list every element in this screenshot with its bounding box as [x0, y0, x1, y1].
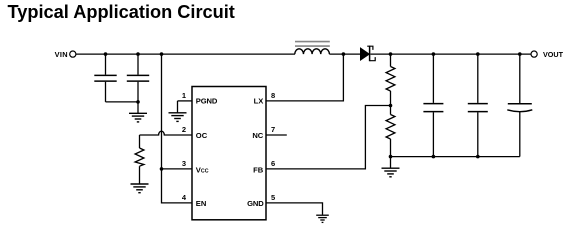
- ground (input caps): [129, 102, 147, 122]
- svg-text:OC: OC: [196, 131, 208, 140]
- pin 7 NC stub: [266, 134, 287, 136]
- pin 8 LX wire: [266, 54, 343, 101]
- node junction dot C4 bottom: [476, 155, 480, 159]
- svg-text:NC: NC: [252, 131, 263, 140]
- wire PGND down to ground: [177, 101, 179, 113]
- wire output bottom rail: [391, 156, 520, 158]
- node VOUT terminal: [531, 50, 564, 59]
- node junction dots output rail top: [432, 52, 436, 56]
- wire inductor to diode: [329, 53, 360, 55]
- svg-text:6: 6: [271, 159, 275, 168]
- capacitor C3 (output): [423, 54, 443, 157]
- wire VIN rail to inductor: [76, 53, 295, 55]
- node junction dot LX/inductor: [342, 52, 346, 56]
- svg-text:VOUT: VOUT: [543, 50, 564, 59]
- wire R2 to FB node: [390, 91, 392, 115]
- capacitor C2 (input): [127, 54, 149, 102]
- node junction dot diode cathode: [389, 52, 393, 56]
- resistor R2 (FB upper): [386, 67, 395, 92]
- IC U1 body: [192, 87, 266, 220]
- svg-text:LX: LX: [254, 97, 264, 106]
- wire diode to VOUT: [371, 53, 531, 55]
- svg-text:Typical Application Circuit: Typical Application Circuit: [8, 2, 235, 22]
- pin 5 GND wire: [266, 203, 323, 215]
- resistor R1 (OC): [135, 148, 144, 166]
- svg-text:5: 5: [271, 193, 275, 202]
- diode D1 (Schottky): [360, 46, 375, 62]
- capacitor C1 (input): [94, 54, 116, 102]
- wire R1 to ground: [139, 166, 141, 184]
- capacitor C4 (output): [468, 54, 488, 157]
- svg-text:2: 2: [182, 125, 186, 134]
- node junction dot C2 bottom: [136, 100, 140, 104]
- ground (R1): [131, 184, 149, 193]
- svg-text:PGND: PGND: [196, 97, 218, 106]
- wire VIN rail down to Vcc/EN: [162, 54, 193, 203]
- svg-text:GND: GND: [247, 199, 264, 208]
- ground (IC GND): [316, 215, 329, 222]
- inductor L1 coil: [295, 49, 330, 54]
- svg-text:FB: FB: [253, 165, 264, 174]
- wire OC down to resistor R1: [139, 135, 141, 148]
- resistor R3 (FB lower): [386, 115, 395, 140]
- node VIN terminal: [55, 50, 76, 59]
- node junction dots on VIN rail: [104, 52, 108, 56]
- wire R3 to ground node: [390, 139, 392, 157]
- pin 1 PGND stub: [178, 100, 193, 102]
- ground (output): [382, 157, 400, 177]
- node junction dot R3 bottom: [389, 155, 393, 159]
- node junction dot FB: [389, 104, 393, 108]
- wire cathode node to R2: [390, 54, 392, 66]
- pin 6 FB wire: [266, 106, 391, 169]
- node junction dot Vcc: [160, 167, 164, 171]
- pin 3 Vcc wire: [162, 168, 193, 170]
- svg-text:3: 3: [182, 159, 186, 168]
- svg-text:1: 1: [182, 91, 186, 100]
- svg-text:8: 8: [271, 91, 275, 100]
- svg-text:VIN: VIN: [55, 50, 68, 59]
- wire C1 bottom to C2 bottom: [106, 101, 139, 103]
- pin 2 OC wire with hop over vertical feed: [140, 131, 193, 135]
- node junction dot C3 bottom: [432, 155, 436, 159]
- svg-text:EN: EN: [196, 199, 207, 208]
- ground (PGND): [169, 113, 187, 122]
- svg-text:4: 4: [182, 193, 187, 202]
- capacitor C5 (output, polarized): [507, 54, 532, 157]
- svg-text:7: 7: [271, 125, 275, 134]
- inductor L1 core bars: [295, 41, 330, 43]
